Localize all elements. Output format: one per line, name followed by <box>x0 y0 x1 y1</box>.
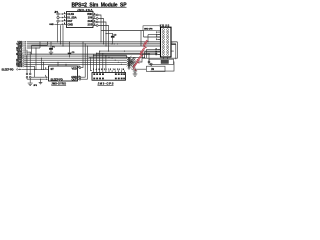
connector JP1 arrows <box>59 13 63 25</box>
svg-text:ST: ST <box>51 67 55 71</box>
wire XBUS right A <box>171 41 173 43</box>
wire SCL row <box>26 49 28 51</box>
svg-text:2: 2 <box>64 16 65 18</box>
svg-text:SLEEP PD: SLEEP PD <box>2 67 14 71</box>
capacitor C2 <box>111 34 117 44</box>
svg-text:JM3-GPS: JM3-GPS <box>98 81 114 85</box>
band wire y55.2 <box>94 55 127 58</box>
wire to XBUS label box <box>101 31 143 47</box>
connector XBUS body <box>161 27 172 57</box>
bus wire VDD y41.9 <box>27 41 177 43</box>
svg-text:IO_SDA: IO_SDA <box>67 15 76 19</box>
band wire y51.1 <box>100 50 174 52</box>
wire vert k12 branch <box>34 66 36 77</box>
wire vert k8 branch <box>41 58 43 69</box>
band wire y57.4 <box>89 56 145 58</box>
module U3 label JM3-GPS <box>98 81 114 85</box>
wire JP3 ground drop <box>29 78 31 83</box>
wire right edge <box>170 42 177 58</box>
wire Y1 right drop <box>151 62 175 71</box>
wire crosshatch link <box>135 58 142 62</box>
node circles near U9 <box>148 61 150 63</box>
module U2 labels <box>51 67 78 82</box>
wire XBUS row21 left <box>143 54 161 58</box>
svg-text:GND: GND <box>67 22 73 26</box>
wire INT1 row <box>27 51 31 53</box>
net label box GND <box>143 26 161 31</box>
wire JP3 to U2 pin1 <box>31 76 44 78</box>
svg-text:GND 1P8: GND 1P8 <box>144 28 153 30</box>
svg-text:1V8: 1V8 <box>88 15 93 19</box>
band wire y53.2 <box>97 52 158 54</box>
wire vert k3 <box>35 48 37 69</box>
junction dots <box>31 33 150 70</box>
wire U1 pin5 bend <box>98 26 108 52</box>
module U3 top stubs <box>94 51 125 72</box>
svg-text:4: 4 <box>79 75 80 78</box>
connector JP1 pins <box>57 13 59 22</box>
module U3 pads <box>93 73 125 79</box>
wire XBUS row19 left <box>145 52 161 58</box>
svg-text:1: 1 <box>45 76 46 78</box>
connector J4 pins crosshatch <box>128 57 135 69</box>
wire SDA row <box>27 42 40 48</box>
svg-text:GND: GND <box>49 24 54 26</box>
svg-text:CLK9: CLK9 <box>67 12 74 16</box>
module U2 JM3-GYRO body <box>49 66 78 81</box>
svg-text:VDD: VDD <box>87 12 92 16</box>
svg-text:2 4 6 8 10 12 14 16 18: 2 4 6 8 10 12 14 16 18 <box>93 68 124 71</box>
regulator U9 box <box>147 66 166 71</box>
svg-text:OUT: OUT <box>72 78 78 82</box>
wire INT3 row <box>27 57 127 59</box>
module U2 input arrows <box>45 76 48 80</box>
left net label column <box>16 41 23 68</box>
net label SLEEP PD <box>2 67 22 71</box>
wire RXD row <box>27 63 127 65</box>
module U1 right pin labels <box>87 12 93 26</box>
module U1 left pin labels <box>67 12 76 26</box>
connector XBUS pins <box>162 29 168 56</box>
wire U2 GND riser <box>81 44 85 77</box>
svg-text:3: 3 <box>45 68 46 70</box>
ground under JP3 <box>28 83 38 87</box>
oscillator Y1 inner <box>161 60 169 63</box>
wire branch to capacitor C2 <box>106 34 113 36</box>
svg-text:RST: RST <box>67 19 72 23</box>
module U3 JM3-GPS body <box>92 73 126 81</box>
wire CS row <box>27 61 127 63</box>
wire JP1 drop 4 <box>62 25 64 46</box>
module U1 right pin circles <box>93 14 98 26</box>
module U2 top stubs <box>58 62 66 66</box>
wire XBUS row17 left <box>147 49 161 58</box>
wire vert to JP3 cap B <box>29 52 31 73</box>
svg-text:TXD2: TXD2 <box>16 65 23 68</box>
svg-text:2G5: 2G5 <box>88 22 93 26</box>
svg-text:3: 3 <box>64 19 65 21</box>
wire U9 link <box>150 65 152 66</box>
wire U1 pin6 bend <box>98 22 106 46</box>
wire INT2 row <box>27 55 127 57</box>
svg-text:JM3-GYRO: JM3-GYRO <box>51 81 67 85</box>
wire SLEEP <box>21 68 48 70</box>
fuse F1 <box>49 42 55 52</box>
wire U2 OUT riser <box>81 46 88 79</box>
wire GPS riser dots band <box>90 57 92 70</box>
wire XBUS right B <box>171 45 176 60</box>
wire SDO row <box>27 53 150 55</box>
ground under C6 <box>133 74 138 76</box>
wire U2 VDD riser <box>81 42 83 68</box>
wire U1 pin8 bend <box>98 15 101 42</box>
red annotation stroke cluster 2 <box>140 48 146 56</box>
wire J4 crosshatch <box>127 56 134 69</box>
red annotation stroke cluster 1 <box>143 40 148 47</box>
ground under F1 <box>49 52 53 54</box>
wire JP3 to U2 pin2 <box>27 78 45 79</box>
module U1 left pin stubs <box>64 14 67 24</box>
wire vert to JP3 cap A <box>26 50 28 73</box>
junction dot JP3 wire <box>40 79 41 80</box>
title BPS=2_Sim_Module_SP <box>72 2 128 8</box>
wire JP1 drop 2 <box>57 22 59 42</box>
svg-text:8: 8 <box>79 66 80 68</box>
bus wire GND y43.9 <box>27 43 176 45</box>
svg-text:1: 1 <box>64 12 65 14</box>
module U1 pin numbers <box>64 12 95 26</box>
red annotation tip <box>133 63 137 71</box>
wire RDY row <box>27 59 127 61</box>
capacitor C6 <box>132 69 147 73</box>
connector XBUS pin numbers <box>155 32 157 56</box>
wire loop mid <box>31 42 47 54</box>
wire JP1 drop 3 <box>60 25 62 44</box>
wire U1 pin7 bend <box>98 19 103 44</box>
oscillator Y1 body <box>149 59 174 64</box>
wire XBUS to Y1 links <box>163 57 167 59</box>
module U1 body <box>67 12 94 28</box>
red annotation stroke cluster 3 <box>136 55 142 63</box>
module U2 right pins <box>78 67 81 80</box>
module U2 label JM3-GYRO <box>51 81 67 85</box>
wire XBUS left mid <box>144 30 161 42</box>
svg-text:VDD: VDD <box>72 67 77 71</box>
wire U9 drop <box>148 54 150 61</box>
module U2 pin numbers <box>45 66 79 78</box>
svg-text:2G8: 2G8 <box>88 19 93 23</box>
left net label arrows <box>23 41 28 67</box>
svg-text:4: 4 <box>64 22 65 25</box>
wire vert k10 branch <box>43 62 45 69</box>
ground G4 small <box>39 79 43 85</box>
wire lower right link <box>142 57 170 59</box>
connector JP3 pins <box>26 73 31 78</box>
connector XBUS left stubs <box>158 32 161 54</box>
capacitor C3 <box>68 42 75 58</box>
wire TXD row <box>27 65 35 67</box>
bus wire SCL y46.0 <box>27 45 161 47</box>
